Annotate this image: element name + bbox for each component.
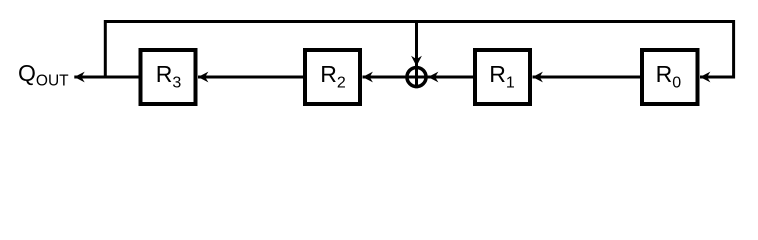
svg-text:R1: R1	[489, 61, 515, 92]
svg-text:R3: R3	[156, 61, 182, 92]
svg-text:QOUT: QOUT	[18, 60, 69, 90]
svg-text:R0: R0	[656, 61, 682, 92]
svg-text:R2: R2	[320, 61, 346, 92]
